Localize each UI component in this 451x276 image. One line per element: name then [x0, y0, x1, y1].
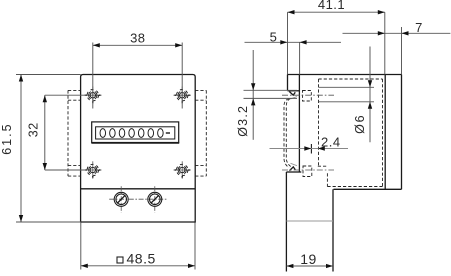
svg-text:61.5: 61.5: [0, 122, 14, 154]
svg-text:38: 38: [130, 31, 145, 46]
svg-text:48.5: 48.5: [127, 251, 156, 267]
svg-text:5: 5: [270, 30, 278, 45]
svg-text:Ø3.2: Ø3.2: [236, 105, 250, 137]
svg-text:32: 32: [27, 122, 41, 137]
svg-text:Ø6: Ø6: [353, 114, 367, 134]
svg-text:2.4: 2.4: [321, 134, 341, 149]
svg-text:7: 7: [415, 20, 423, 35]
svg-text:41.1: 41.1: [318, 0, 345, 12]
svg-text:19: 19: [300, 251, 317, 267]
